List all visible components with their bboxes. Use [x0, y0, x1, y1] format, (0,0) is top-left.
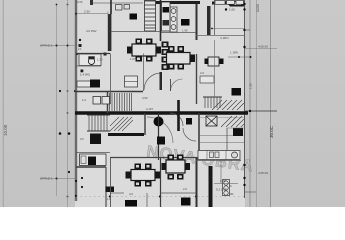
right dim tick 30.0C — [244, 110, 277, 112]
TV bedroom1 — [130, 14, 138, 20]
svg-text:2.30: 2.30 — [84, 10, 90, 14]
right outer wall — [244, 0, 246, 198]
nightstands bedroom1 — [116, 5, 123, 11]
bedroom2 wall vertical — [196, 4, 198, 40]
top outer wall segment 1 — [90, 0, 93, 5]
top outer wall segment 2 — [156, 1, 200, 4]
wall under counters — [196, 160, 241, 162]
svg-text:4.107: 4.107 — [146, 107, 153, 111]
svg-text:2.0: 2.0 — [183, 187, 187, 191]
wall thin vertical — [214, 0, 216, 35]
svg-text:1.4 WC: 1.4 WC — [80, 73, 91, 77]
svg-text:10.00: 10.00 — [256, 4, 260, 12]
hall wall vertical (right of stair) — [198, 113, 200, 157]
vertical line lower right — [226, 128, 228, 160]
kitchen counter — [77, 81, 93, 87]
diagonal hatch upper (ramp) — [212, 100, 244, 110]
hall door arc large — [147, 117, 173, 143]
unit divider wall bottom — [160, 158, 162, 208]
stairwell side wall — [107, 91, 109, 113]
laundry boxes — [93, 97, 101, 105]
plan paper interior — [75, 0, 245, 207]
black sq below circle — [157, 137, 165, 145]
top outer wall segment 3 — [212, 2, 245, 5]
room line under bedroom2 — [196, 35, 244, 37]
small table right (top) — [205, 57, 224, 66]
cabinet on top wall — [145, 1, 156, 6]
main dividing wall — [75, 111, 248, 114]
svg-text:2.1: 2.1 — [78, 47, 82, 51]
dots along right wall — [243, 3, 245, 5]
bedroom1 wall vertical — [110, 0, 112, 14]
living room counters (top middle) — [125, 76, 138, 87]
stairs left (bottom unit) — [89, 115, 107, 131]
svg-text:1.76: 1.76 — [220, 179, 226, 183]
bottom dashed dimension — [76, 196, 244, 198]
svg-text:5.2 LNB: 5.2 LNB — [216, 188, 227, 192]
sink — [210, 152, 214, 158]
toilet — [88, 58, 94, 65]
svg-text:1.99: 1.99 — [182, 29, 188, 33]
door arc bottom unit hall — [170, 113, 183, 126]
wardrobe bedroom2 — [170, 7, 177, 32]
black storage under stairs — [90, 134, 101, 145]
svg-text:2.03: 2.03 — [77, 0, 83, 4]
diagonal hatch lower (ramp) — [221, 116, 244, 127]
svg-text:1.06: 1.06 — [229, 8, 235, 12]
svg-text:1.075: 1.075 — [130, 57, 137, 61]
left dimension line B — [67, 0, 69, 207]
vertical wall bottom unit — [177, 100, 180, 131]
left dimension line A — [56, 4, 58, 196]
dim tick bottom right — [214, 183, 238, 185]
kitchen 2 counters right — [200, 76, 214, 83]
svg-text:4 1RN: 4 1RN — [220, 36, 229, 40]
wc top-left: counter — [79, 54, 101, 66]
leader SPPAD bottom — [40, 177, 75, 181]
svg-text:4.05.00: 4.05.00 — [258, 45, 268, 49]
thin walls bottom mid — [110, 158, 112, 208]
wardrobe circles bottom right — [223, 180, 230, 196]
svg-text:4.0 PAV: 4.0 PAV — [86, 29, 97, 33]
property line left — [2, 0, 4, 207]
dots bottom-left — [68, 171, 70, 173]
bedroom divider vertical — [160, 0, 162, 41]
dark bar bottom right — [209, 166, 213, 207]
door arc living — [144, 73, 161, 90]
hall side wall — [144, 113, 146, 135]
svg-text:4.60: 4.60 — [142, 96, 148, 100]
svg-text:4.05.00: 4.05.00 — [258, 171, 268, 175]
kitchen wall — [75, 91, 143, 93]
door arc unit2 kitchen — [171, 79, 183, 91]
box with X — [206, 116, 217, 126]
dining table 3 (bottom left unit) — [126, 164, 161, 187]
svg-text:1.0: 1.0 — [82, 98, 86, 102]
svg-text:C3: C3 — [80, 137, 84, 141]
TV bedroom2 — [181, 19, 190, 26]
right dimension lines — [249, 0, 251, 207]
stair diagonal hatch below divider — [110, 117, 133, 131]
junction dots mid-left — [59, 132, 62, 135]
hall wall horizontal — [199, 135, 235, 137]
hall vertical wall — [196, 54, 198, 104]
bedroom2 floor line — [161, 32, 196, 34]
svg-text:10.00: 10.00 — [3, 124, 8, 136]
horizontal mid-bottom wall — [110, 157, 196, 159]
small black rect bottom corridor — [106, 187, 115, 193]
balcony cabinets top right — [215, 1, 225, 5]
black utility block right — [232, 88, 242, 96]
stove black — [90, 80, 100, 88]
svg-text:30.0C: 30.0C — [269, 125, 274, 138]
column circle — [154, 117, 164, 127]
bottom unit vertical wall — [196, 157, 198, 207]
stairs top-right — [205, 97, 220, 108]
room dim line right bedroom — [211, 28, 244, 30]
dim tick right mid — [228, 56, 251, 58]
bed/closet ladder bedroom1 — [145, 1, 156, 31]
appliance block top (x160-170) — [162, 2, 171, 31]
cooktop circle — [232, 152, 238, 158]
TV bottom right — [181, 198, 191, 206]
dining table 4 (bottom right unit) — [162, 155, 191, 180]
left outer wall — [75, 0, 77, 201]
black sq bottom unit — [186, 118, 192, 125]
svg-text:1.20: 1.20 — [97, 58, 103, 62]
svg-text:4.6: 4.6 — [129, 192, 133, 196]
svg-text:1 1RN: 1 1RN — [230, 51, 238, 55]
chair column left of table 2 — [162, 42, 169, 71]
top-right corner wedge — [225, 1, 244, 7]
dining table 2 (top right unit) — [167, 46, 196, 70]
leader SPPAD top — [40, 44, 75, 48]
dining table 1 (top left unit) — [127, 39, 161, 62]
corridor line bottom — [146, 193, 148, 207]
watermark — [145, 143, 254, 176]
black rect right mid — [233, 128, 243, 136]
TV bottom left — [125, 200, 137, 207]
kitchen counters bottom right — [198, 151, 240, 160]
hatched wall vertical — [207, 6, 211, 35]
misc interior thin lines top unit — [111, 31, 161, 33]
wc bottom-left — [76, 152, 110, 154]
svg-text:2.6: 2.6 — [200, 71, 204, 75]
lower stair wall — [108, 133, 144, 136]
svg-text:1.50: 1.50 — [249, 83, 253, 89]
stair hatch upper middle (treads) — [110, 93, 132, 112]
